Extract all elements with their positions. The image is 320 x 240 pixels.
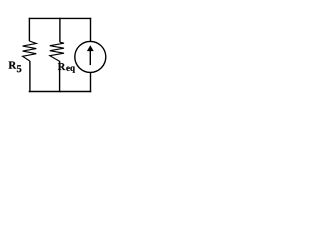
wire middle-top (top rail to Req): [59, 18, 61, 43]
wire top (node between all branches): [29, 17, 91, 19]
label R5: [9, 62, 17, 69]
wire middle-bottom (Req to bottom rail): [59, 61, 61, 92]
wire right-bottom (current source to bottom rail): [90, 72, 92, 92]
resistor Req: [50, 42, 64, 61]
resistor R5: [23, 41, 37, 61]
wire left-bottom (R5 to bottom rail): [29, 61, 31, 92]
wire right-top (top rail to current source): [90, 18, 92, 42]
wire left-top (top rail to R5): [28, 18, 30, 41]
wire bottom (node between all branches): [29, 91, 91, 93]
current source I1 (circle): [75, 41, 106, 72]
current source arrow (points up): [89, 50, 91, 65]
label Req: [58, 63, 65, 70]
